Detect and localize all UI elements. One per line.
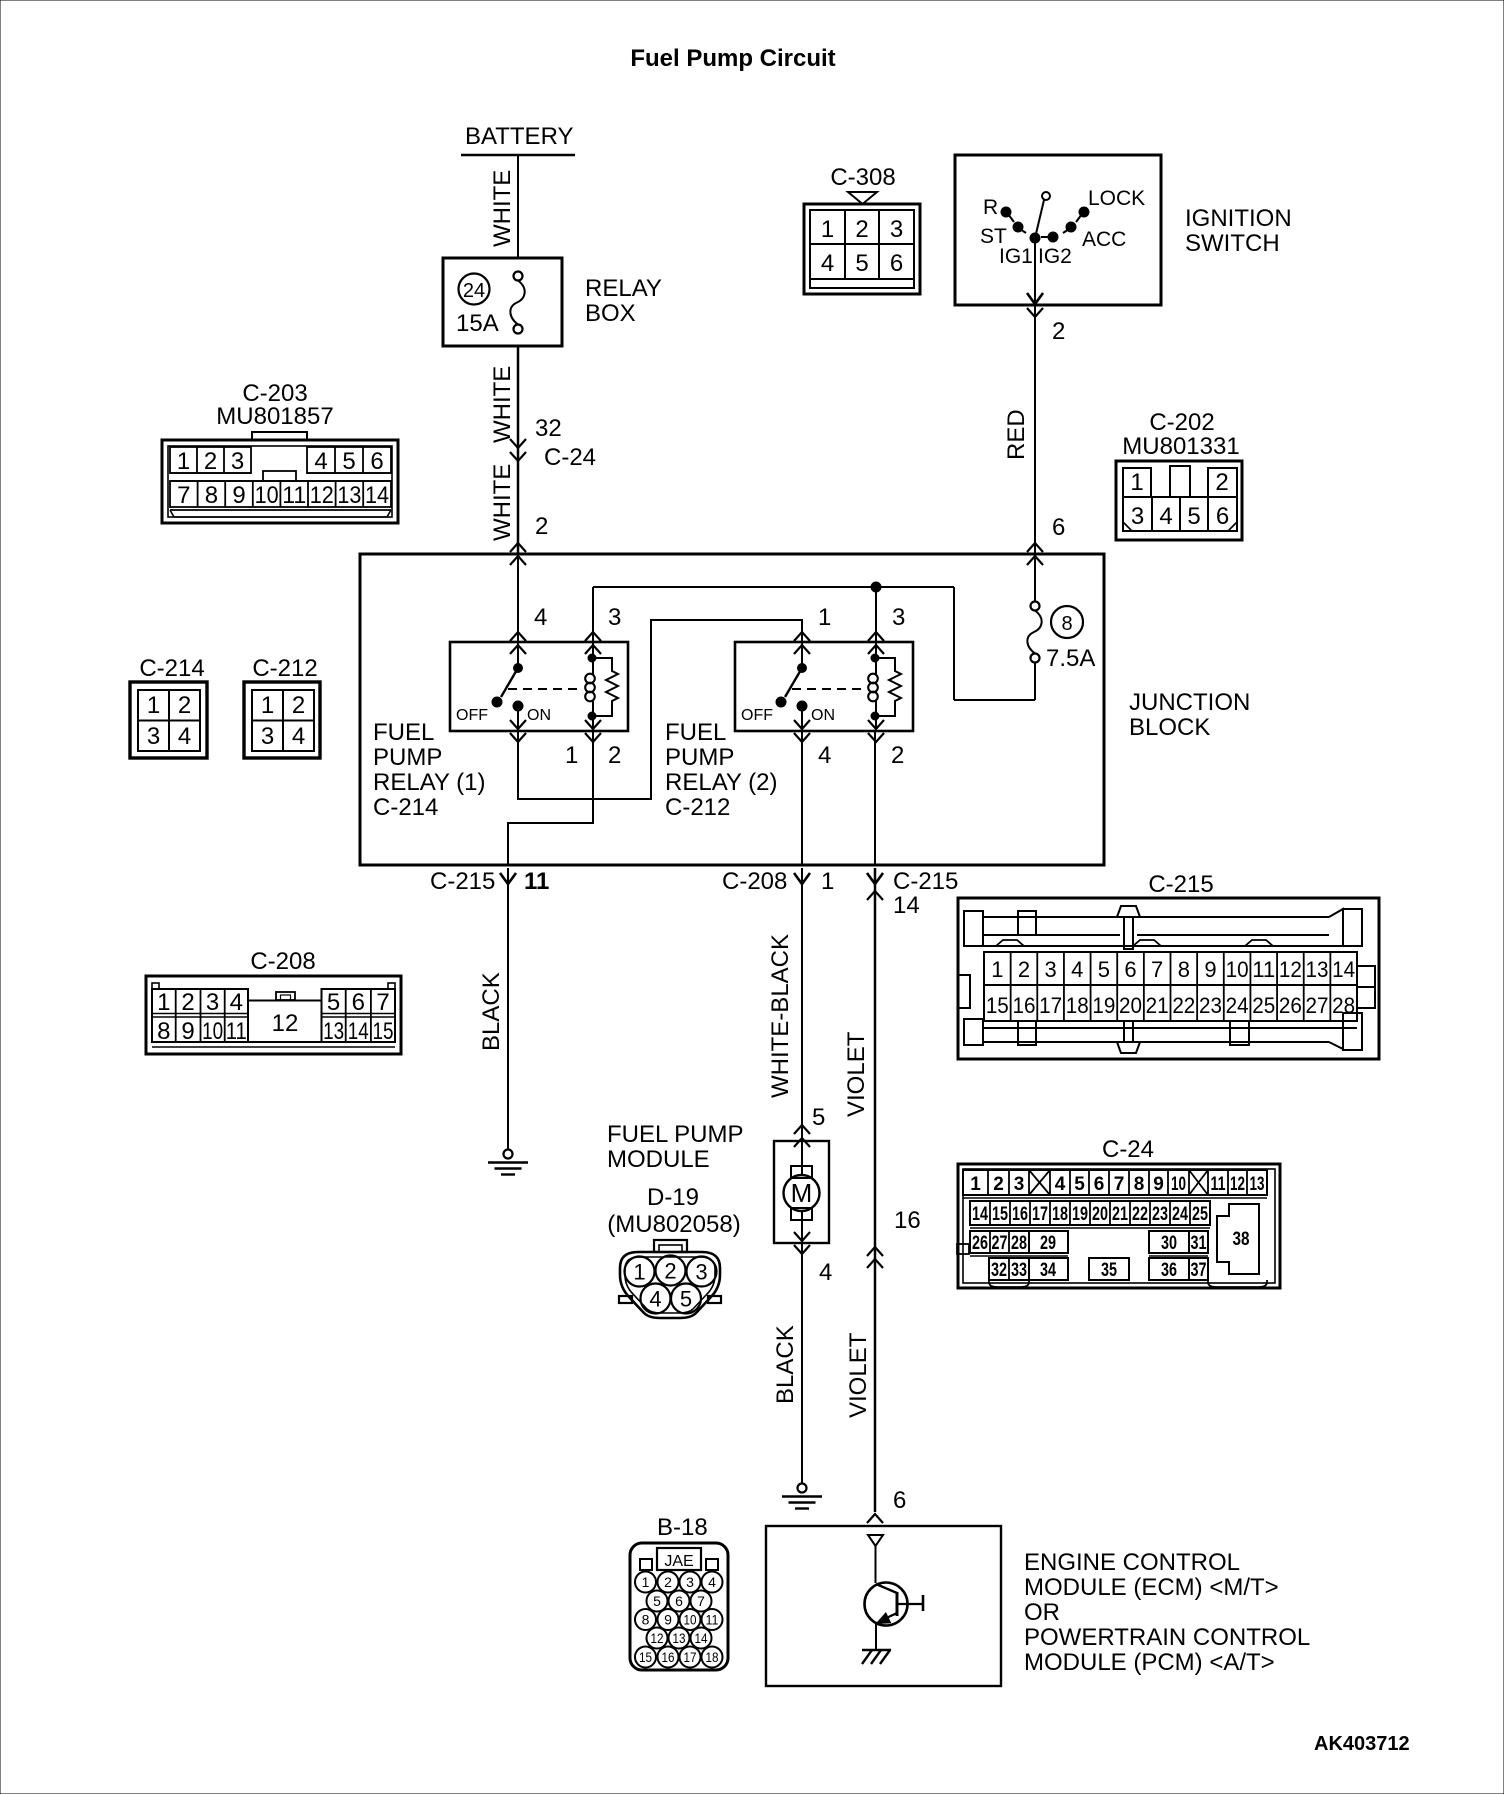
svg-text:5: 5 <box>812 1104 825 1131</box>
svg-text:D-19: D-19 <box>647 1184 699 1211</box>
svg-text:16: 16 <box>1012 1204 1028 1225</box>
svg-text:7.5A: 7.5A <box>1046 645 1095 672</box>
svg-text:BATTERY: BATTERY <box>465 123 573 150</box>
svg-text:13: 13 <box>1250 1174 1265 1195</box>
svg-text:ON: ON <box>527 707 551 724</box>
ignition switch box <box>955 155 1161 305</box>
svg-text:18: 18 <box>706 1649 719 1665</box>
svg-text:30: 30 <box>1161 1233 1177 1254</box>
svg-text:VIOLET: VIOLET <box>845 1332 872 1418</box>
svg-text:32: 32 <box>991 1260 1007 1281</box>
fuel pump relay (2) C-212 switch <box>801 642 803 668</box>
svg-text:3: 3 <box>892 604 905 631</box>
svg-text:C-215: C-215 <box>893 868 958 895</box>
svg-text:12: 12 <box>651 1630 664 1646</box>
svg-text:15: 15 <box>639 1649 652 1665</box>
C-308 pointer triangle <box>848 192 877 204</box>
connector C-202 body <box>1116 461 1242 540</box>
svg-text:C-24: C-24 <box>1102 1136 1154 1163</box>
svg-text:24: 24 <box>1172 1204 1188 1225</box>
svg-text:3: 3 <box>1014 1174 1025 1195</box>
svg-text:C-215: C-215 <box>430 868 495 895</box>
svg-text:1: 1 <box>818 604 831 631</box>
svg-text:19: 19 <box>1072 1204 1088 1225</box>
svg-text:2: 2 <box>204 448 217 475</box>
svg-text:C-208: C-208 <box>250 948 315 975</box>
svg-text:11: 11 <box>226 1018 247 1045</box>
wire relay1 pin2 to C-215 pin 11 <box>508 731 593 865</box>
svg-text:27: 27 <box>992 1233 1008 1254</box>
svg-text:MODULE (ECM) <M/T>: MODULE (ECM) <M/T> <box>1024 1574 1279 1601</box>
ECM box <box>766 1526 1001 1686</box>
relay box <box>443 258 562 346</box>
svg-text:21: 21 <box>1146 993 1169 1018</box>
svg-text:4: 4 <box>314 448 327 475</box>
svg-text:14: 14 <box>365 482 389 509</box>
svg-text:RED: RED <box>1003 409 1030 460</box>
svg-text:5: 5 <box>653 1593 661 1609</box>
svg-text:15: 15 <box>373 1018 394 1045</box>
svg-text:15A: 15A <box>456 310 499 337</box>
svg-text:8: 8 <box>1178 957 1190 982</box>
svg-text:3: 3 <box>686 1574 694 1590</box>
svg-text:16: 16 <box>894 1207 921 1234</box>
svg-text:32: 32 <box>535 415 562 442</box>
svg-text:9: 9 <box>232 482 245 509</box>
svg-text:14: 14 <box>348 1018 369 1045</box>
wire WHITE-BLACK to fuel pump module <box>801 868 803 1141</box>
svg-text:2: 2 <box>535 513 548 540</box>
fuel pump relay (2) C-212 coil <box>872 655 879 662</box>
svg-text:POWERTRAIN CONTROL: POWERTRAIN CONTROL <box>1024 1624 1310 1651</box>
svg-text:1: 1 <box>821 216 834 243</box>
svg-text:5: 5 <box>680 1287 692 1312</box>
junction dot <box>872 583 881 592</box>
svg-text:26: 26 <box>1279 993 1302 1018</box>
svg-text:8: 8 <box>157 1018 170 1045</box>
svg-text:IG2: IG2 <box>1038 245 1072 268</box>
svg-text:1: 1 <box>970 1174 981 1195</box>
svg-text:MU801331: MU801331 <box>1122 433 1239 460</box>
svg-text:17: 17 <box>684 1649 697 1665</box>
svg-text:9: 9 <box>1153 1174 1164 1195</box>
svg-text:ON: ON <box>811 707 835 724</box>
svg-text:19: 19 <box>1092 993 1115 1018</box>
ignition switch rotary contacts <box>1042 192 1050 200</box>
svg-text:Fuel Pump Circuit: Fuel Pump Circuit <box>630 45 835 72</box>
svg-text:C-215: C-215 <box>1148 871 1213 898</box>
svg-text:3: 3 <box>261 723 274 750</box>
svg-text:5: 5 <box>342 448 355 475</box>
svg-text:22: 22 <box>1172 993 1195 1018</box>
svg-text:6: 6 <box>893 1487 906 1514</box>
svg-text:3: 3 <box>231 448 244 475</box>
svg-text:VIOLET: VIOLET <box>843 1031 870 1117</box>
fuel pump relay (1) C-214 coil <box>589 655 596 662</box>
svg-text:28: 28 <box>1011 1233 1027 1254</box>
svg-text:2: 2 <box>855 216 868 243</box>
wire BLACK fuel pump to ground <box>801 1243 803 1483</box>
svg-text:1: 1 <box>565 742 578 769</box>
svg-text:13: 13 <box>673 1630 686 1646</box>
svg-text:RELAY (2): RELAY (2) <box>665 769 778 796</box>
svg-text:AK403712: AK403712 <box>1314 1733 1410 1755</box>
svg-text:8: 8 <box>642 1612 650 1628</box>
svg-text:16: 16 <box>1012 993 1035 1018</box>
svg-text:4: 4 <box>649 1287 661 1312</box>
svg-text:11: 11 <box>524 868 549 895</box>
svg-text:2: 2 <box>608 742 621 769</box>
svg-text:6: 6 <box>370 448 383 475</box>
wire riser <box>953 587 955 700</box>
svg-text:5: 5 <box>1098 957 1110 982</box>
svg-text:8: 8 <box>1061 613 1072 635</box>
wire VIOLET junction block to ECM <box>874 868 877 1512</box>
svg-text:23: 23 <box>1199 993 1222 1018</box>
svg-text:6: 6 <box>1216 503 1229 530</box>
svg-text:11: 11 <box>1211 1174 1226 1195</box>
svg-text:7: 7 <box>177 482 190 509</box>
wire relay1 pin1 to relay2 pin1 <box>518 620 802 799</box>
junction block outline <box>360 554 1104 865</box>
svg-text:C-212: C-212 <box>252 655 317 682</box>
junction block entry chevrons (pin 2) <box>510 543 526 552</box>
wire to transistor collector <box>875 1546 877 1583</box>
svg-text:9: 9 <box>664 1612 672 1628</box>
svg-text:1: 1 <box>157 989 170 1016</box>
svg-text:C-208: C-208 <box>722 868 787 895</box>
wire to fuse 8 bottom <box>954 699 1035 701</box>
svg-text:7: 7 <box>1114 1174 1125 1195</box>
svg-text:IGNITION: IGNITION <box>1185 205 1292 232</box>
svg-text:17: 17 <box>1039 993 1062 1018</box>
wire pin2 to relay1 pin4 <box>517 554 519 642</box>
svg-text:17: 17 <box>1032 1204 1048 1225</box>
ground (left) <box>504 1150 513 1159</box>
svg-text:23: 23 <box>1152 1204 1168 1225</box>
svg-text:4: 4 <box>178 723 191 750</box>
svg-text:11: 11 <box>282 482 306 509</box>
svg-text:OFF: OFF <box>456 707 488 724</box>
svg-text:11: 11 <box>1252 957 1275 982</box>
wire fuse 8 upper stub <box>1034 554 1036 602</box>
svg-text:5: 5 <box>1187 503 1200 530</box>
svg-text:21: 21 <box>1112 1204 1128 1225</box>
svg-text:IG1: IG1 <box>999 245 1033 268</box>
svg-text:12: 12 <box>1279 957 1302 982</box>
svg-text:11: 11 <box>706 1612 719 1628</box>
svg-text:1: 1 <box>147 692 160 719</box>
fuel pump relay (1) C-214 dashed link <box>508 688 583 690</box>
wire to relay1 pin3 <box>592 587 594 642</box>
svg-text:8: 8 <box>1134 1174 1145 1195</box>
svg-text:2: 2 <box>292 692 305 719</box>
svg-text:OFF: OFF <box>741 707 773 724</box>
svg-text:MU801857: MU801857 <box>216 403 333 430</box>
svg-text:MODULE (PCM) <A/T>: MODULE (PCM) <A/T> <box>1024 1649 1275 1676</box>
ECM input triangle <box>868 1535 883 1546</box>
svg-text:1: 1 <box>821 868 834 895</box>
svg-text:13: 13 <box>1306 957 1329 982</box>
svg-text:12: 12 <box>310 482 334 509</box>
svg-text:1: 1 <box>633 1260 645 1285</box>
svg-text:6: 6 <box>675 1593 683 1609</box>
fuel pump relay (2) C-212 <box>735 642 913 731</box>
B-18 pin circles <box>635 1572 656 1593</box>
svg-text:22: 22 <box>1132 1204 1148 1225</box>
svg-text:2: 2 <box>1018 957 1030 982</box>
svg-text:4: 4 <box>708 1574 716 1590</box>
C-215 top latch cap <box>1117 906 1140 917</box>
transistor <box>865 1583 908 1626</box>
svg-text:36: 36 <box>1161 1260 1177 1281</box>
svg-text:C-214: C-214 <box>139 655 204 682</box>
svg-text:31: 31 <box>1191 1233 1207 1254</box>
svg-text:C-308: C-308 <box>830 164 895 191</box>
svg-text:2: 2 <box>664 1259 676 1284</box>
svg-text:WHITE-BLACK: WHITE-BLACK <box>767 934 794 1098</box>
wire BLACK to ground <box>507 868 509 1149</box>
connector C-24 body <box>958 1164 1280 1288</box>
svg-text:ACC: ACC <box>1082 228 1126 251</box>
ground (fuel pump) <box>798 1484 807 1493</box>
svg-text:24: 24 <box>463 280 485 302</box>
svg-text:4: 4 <box>534 604 547 631</box>
svg-text:7: 7 <box>697 1593 705 1609</box>
C-215 top right step <box>1329 909 1343 946</box>
svg-text:8: 8 <box>205 482 218 509</box>
svg-text:2: 2 <box>178 692 191 719</box>
svg-text:OR: OR <box>1024 1599 1060 1626</box>
svg-text:RELAY: RELAY <box>585 275 662 302</box>
wire emitter to chassis ground <box>875 1624 877 1650</box>
svg-text:3: 3 <box>695 1260 707 1285</box>
svg-text:2: 2 <box>891 742 904 769</box>
svg-text:JUNCTION: JUNCTION <box>1129 689 1250 716</box>
svg-text:26: 26 <box>972 1233 988 1254</box>
wire RED ignition to junction block <box>1034 305 1036 554</box>
svg-text:10: 10 <box>202 1018 223 1045</box>
svg-text:2: 2 <box>1215 469 1228 496</box>
svg-text:15: 15 <box>986 993 1009 1018</box>
svg-text:3: 3 <box>1131 503 1144 530</box>
svg-text:FUEL: FUEL <box>665 719 726 746</box>
svg-text:9: 9 <box>181 1018 194 1045</box>
C-24 crossed cells <box>1029 1170 1050 1195</box>
connector C-215 body <box>958 898 1379 1059</box>
svg-text:3: 3 <box>147 723 160 750</box>
svg-text:27: 27 <box>1306 993 1329 1018</box>
svg-text:WHITE: WHITE <box>489 464 516 541</box>
wire battery to relay box (WHITE) <box>517 155 519 258</box>
connector B-18 body <box>630 1543 728 1670</box>
svg-text:6: 6 <box>1124 957 1136 982</box>
svg-text:24: 24 <box>1226 993 1249 1018</box>
fuel pump module exit chevrons <box>794 1232 810 1241</box>
svg-text:29: 29 <box>1040 1233 1056 1254</box>
svg-text:C-24: C-24 <box>544 444 596 471</box>
svg-text:12: 12 <box>272 1010 299 1037</box>
fuel pump relay (2) C-212 pin chevrons <box>794 632 810 641</box>
svg-text:10: 10 <box>1171 1174 1186 1195</box>
svg-text:4: 4 <box>819 1259 832 1286</box>
wire bus from fuse 8 <box>593 586 954 588</box>
svg-text:PUMP: PUMP <box>665 744 734 771</box>
connector C-203 body <box>252 432 307 440</box>
svg-text:4: 4 <box>1159 503 1172 530</box>
fuse 8 circle <box>1051 606 1083 638</box>
svg-text:MODULE: MODULE <box>607 1146 710 1173</box>
svg-text:25: 25 <box>1252 993 1275 1018</box>
svg-text:10: 10 <box>684 1612 697 1628</box>
connector C-308 body <box>804 204 920 294</box>
svg-text:5: 5 <box>327 989 340 1016</box>
svg-text:2: 2 <box>993 1174 1004 1195</box>
fuel pump module entry chevrons <box>794 1125 810 1134</box>
C-215 bottom furniture <box>983 1027 1357 1029</box>
svg-text:20: 20 <box>1119 993 1142 1018</box>
svg-text:3: 3 <box>1044 957 1056 982</box>
svg-text:4: 4 <box>1055 1174 1066 1195</box>
chassis ground <box>862 1649 891 1651</box>
svg-text:14: 14 <box>893 892 920 919</box>
svg-text:R: R <box>983 196 998 219</box>
svg-text:FUEL: FUEL <box>373 719 434 746</box>
svg-text:JAE: JAE <box>664 1553 693 1570</box>
svg-text:(MU802058): (MU802058) <box>607 1211 740 1238</box>
junction block exit arrows <box>500 873 516 884</box>
wire fuse 8 lower stub <box>1034 662 1036 700</box>
svg-text:FUEL PUMP: FUEL PUMP <box>607 1121 743 1148</box>
svg-text:BOX: BOX <box>585 300 636 327</box>
svg-text:C-212: C-212 <box>665 794 730 821</box>
svg-text:14: 14 <box>695 1630 708 1646</box>
svg-text:2: 2 <box>1052 318 1065 345</box>
svg-text:BLACK: BLACK <box>772 1325 799 1404</box>
wire relay2 pin2 to C-215 pin 14 <box>874 731 876 865</box>
wire to relay2 pin3 <box>875 587 877 642</box>
svg-text:5: 5 <box>855 250 868 277</box>
fuel pump relay (1) C-214 <box>450 642 628 731</box>
fuel pump relay (1) C-214 switch <box>517 642 519 668</box>
svg-text:C-202: C-202 <box>1149 409 1214 436</box>
wire IG2 to pin 2 <box>1034 243 1036 303</box>
svg-text:13: 13 <box>323 1018 344 1045</box>
svg-text:18: 18 <box>1052 1204 1068 1225</box>
connector C-208 body <box>146 976 401 1054</box>
svg-text:7: 7 <box>1151 957 1163 982</box>
svg-text:4: 4 <box>1071 957 1083 982</box>
svg-text:B-18: B-18 <box>657 1514 708 1541</box>
svg-text:12: 12 <box>1230 1174 1245 1195</box>
svg-text:6: 6 <box>890 250 903 277</box>
svg-text:1: 1 <box>642 1574 650 1590</box>
C-24 crossing chevrons <box>867 1247 883 1256</box>
svg-text:4: 4 <box>821 250 834 277</box>
svg-text:BLACK: BLACK <box>478 972 505 1051</box>
svg-text:14: 14 <box>972 1204 988 1225</box>
svg-text:SWITCH: SWITCH <box>1185 230 1280 257</box>
svg-text:6: 6 <box>352 989 365 1016</box>
svg-text:1: 1 <box>261 692 274 719</box>
svg-text:34: 34 <box>1040 1260 1056 1281</box>
svg-text:33: 33 <box>1011 1260 1027 1281</box>
svg-text:16: 16 <box>662 1649 675 1665</box>
svg-text:35: 35 <box>1101 1260 1117 1281</box>
svg-text:3: 3 <box>608 604 621 631</box>
svg-text:13: 13 <box>337 482 361 509</box>
svg-text:1: 1 <box>991 957 1003 982</box>
fuel pump module box <box>774 1141 829 1243</box>
svg-text:4: 4 <box>292 723 305 750</box>
svg-text:15: 15 <box>992 1204 1008 1225</box>
svg-text:6: 6 <box>1094 1174 1105 1195</box>
svg-text:BLOCK: BLOCK <box>1129 714 1210 741</box>
motor M <box>801 1141 803 1175</box>
svg-text:M: M <box>791 1178 813 1208</box>
fuel pump relay (1) C-214 pin chevrons <box>510 632 526 641</box>
svg-text:3: 3 <box>206 989 219 1016</box>
svg-text:1: 1 <box>1130 469 1143 496</box>
svg-text:7: 7 <box>376 989 389 1016</box>
fuse 24 circle <box>459 274 490 305</box>
svg-text:ENGINE CONTROL: ENGINE CONTROL <box>1024 1549 1240 1576</box>
svg-text:14: 14 <box>1332 957 1355 982</box>
svg-text:25: 25 <box>1192 1204 1208 1225</box>
svg-text:6: 6 <box>1052 514 1065 541</box>
svg-text:5: 5 <box>1074 1174 1085 1195</box>
svg-text:37: 37 <box>1191 1260 1207 1281</box>
fuel pump relay (2) C-212 dashed link <box>792 688 866 690</box>
wire WHITE relay box to junction block <box>517 346 520 554</box>
svg-text:WHITE: WHITE <box>489 366 516 443</box>
svg-text:4: 4 <box>818 742 831 769</box>
svg-text:C-214: C-214 <box>373 794 438 821</box>
svg-text:20: 20 <box>1092 1204 1108 1225</box>
junction block entry chevrons (pin 6) <box>1027 543 1043 552</box>
svg-text:WHITE: WHITE <box>489 170 516 247</box>
C-24 cell 38 <box>1217 1204 1259 1274</box>
svg-text:1: 1 <box>177 448 190 475</box>
svg-text:4: 4 <box>230 989 243 1016</box>
svg-text:PUMP: PUMP <box>373 744 442 771</box>
svg-text:LOCK: LOCK <box>1088 187 1145 210</box>
battery terminal line <box>461 154 575 156</box>
svg-text:2: 2 <box>664 1574 672 1590</box>
svg-text:9: 9 <box>1204 957 1216 982</box>
svg-text:10: 10 <box>255 482 279 509</box>
svg-text:18: 18 <box>1066 993 1089 1018</box>
connector D-19 body <box>654 1240 687 1252</box>
wire relay2 pin4 to C-208 pin 1 <box>801 731 803 865</box>
svg-text:10: 10 <box>1226 957 1249 982</box>
svg-text:2: 2 <box>181 989 194 1016</box>
connector crossing C-24 chevrons <box>510 439 526 448</box>
svg-text:RELAY (1): RELAY (1) <box>373 769 486 796</box>
svg-text:3: 3 <box>890 216 903 243</box>
svg-text:38: 38 <box>1233 1229 1250 1250</box>
C-215 pin grid <box>984 952 1357 1021</box>
